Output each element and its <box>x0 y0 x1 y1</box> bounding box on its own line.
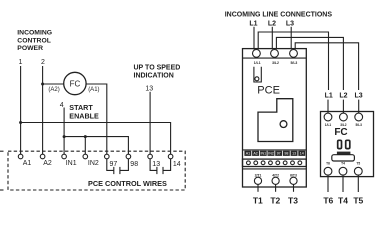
svg-text:T5: T5 <box>356 162 360 166</box>
rocker <box>332 155 355 161</box>
svg-text:INCOMING: INCOMING <box>17 29 52 36</box>
PCE terminal 1/L1 <box>253 50 261 58</box>
coil window bars <box>338 140 350 148</box>
contact 13-14 (N.O. contact) <box>150 159 171 174</box>
svg-text:98: 98 <box>130 161 138 168</box>
svg-text:T4: T4 <box>341 162 345 166</box>
svg-text:5/L3: 5/L3 <box>356 123 363 127</box>
svg-text:FC: FC <box>70 79 81 88</box>
svg-text:POWER: POWER <box>17 45 43 52</box>
wire from FC coil (A1) right then down to terminal 97 <box>86 84 107 154</box>
svg-text:1: 1 <box>19 59 23 66</box>
FC terminal T6 <box>324 167 332 175</box>
wire stub T5 <box>357 175 359 192</box>
terminal IN1 <box>62 154 67 159</box>
stray dash left edge bottom <box>0 189 4 191</box>
svg-text:IN1: IN1 <box>66 160 77 167</box>
wire line2 from node 2 down to terminal A2 <box>42 66 44 154</box>
svg-text:(A1): (A1) <box>88 87 99 93</box>
wire jumper 1/L1 to FC L1 <box>258 32 328 90</box>
svg-text:3/L2: 3/L2 <box>272 61 279 65</box>
PCE terminal 6/T3 <box>290 177 297 184</box>
terminal 97 <box>105 154 110 159</box>
FC terminal 1/L1 <box>324 113 332 121</box>
svg-text:T2: T2 <box>270 195 280 205</box>
svg-text:L2: L2 <box>268 20 276 27</box>
FC terminal 3/L2 <box>340 113 348 121</box>
FC contactor box <box>321 112 374 177</box>
terminal strip dark blocks A1 A2 IN1 IN2 97 98 13 14 <box>244 151 305 156</box>
svg-text:INCOMING LINE CONNECTIONS: INCOMING LINE CONNECTIONS <box>225 11 333 18</box>
wire from node 13 down to terminal 13 <box>149 92 151 154</box>
coil FC (left diagram) <box>64 72 86 94</box>
PCE terminal 4/T2 <box>272 177 279 184</box>
terminal strip top line <box>243 149 307 151</box>
wire jumper 3/L2 to FC L2 <box>276 37 343 90</box>
terminal A2 <box>40 154 45 159</box>
svg-text:T6: T6 <box>326 162 330 166</box>
screw row band <box>243 159 307 166</box>
contact 97-98 (N.O. contact) <box>107 159 129 174</box>
junction on line2 at y=84 <box>41 83 44 86</box>
wire stub T1 <box>257 185 259 192</box>
terminal A1 <box>18 154 23 159</box>
svg-text:IN1: IN1 <box>261 152 267 156</box>
svg-text:98: 98 <box>284 152 288 156</box>
wire FC L1 stub <box>327 100 329 114</box>
FC terminal T5 <box>354 167 362 175</box>
wire L1 into PCE terminal 1/L1 <box>253 27 255 50</box>
PCE terminal 3/L2 <box>271 50 279 58</box>
terminal IN2 <box>83 154 88 159</box>
rocker lip <box>337 152 351 155</box>
line under screw band <box>243 168 307 170</box>
FC terminal T4 <box>339 167 347 175</box>
svg-text:T5: T5 <box>353 196 363 206</box>
svg-text:FC: FC <box>334 127 347 138</box>
wire stub T6 <box>327 175 329 192</box>
svg-text:INDICATION: INDICATION <box>134 72 174 79</box>
svg-text:13: 13 <box>152 161 160 168</box>
wire FC L3 stub <box>358 100 360 114</box>
svg-text:CONTROL: CONTROL <box>17 37 51 44</box>
svg-text:13: 13 <box>145 86 153 93</box>
svg-text:IN2: IN2 <box>88 160 99 167</box>
svg-text:4: 4 <box>60 102 64 109</box>
junction above IN2 <box>84 135 87 138</box>
svg-text:(A2): (A2) <box>48 87 59 93</box>
divider under PCE top terminals <box>243 57 307 59</box>
svg-text:1/L1: 1/L1 <box>325 123 332 127</box>
wire line1 from node 1 down to terminal A1 <box>20 66 22 154</box>
terminal 13 <box>148 154 153 159</box>
svg-text:PCE CONTROL WIRES: PCE CONTROL WIRES <box>88 179 167 188</box>
svg-text:97: 97 <box>277 152 281 156</box>
svg-text:A2: A2 <box>253 152 257 156</box>
stray dash left edge top <box>0 150 4 152</box>
terminal 98 <box>126 154 131 159</box>
screw terminals row <box>247 161 302 165</box>
wire stub T4 <box>342 175 344 192</box>
svg-text:T6: T6 <box>323 196 333 206</box>
DIN clip symbol <box>254 67 261 82</box>
junction on line1 at y=122.5 <box>19 121 22 124</box>
svg-text:14: 14 <box>173 161 181 168</box>
svg-text:A2: A2 <box>43 160 52 167</box>
svg-text:L1: L1 <box>325 93 333 100</box>
svg-text:PCE: PCE <box>257 85 280 97</box>
wire FC L2 stub <box>342 100 344 114</box>
wire from line2 junction to FC coil (A2) <box>43 83 64 85</box>
svg-text:IN2: IN2 <box>268 152 274 156</box>
dashed boundary PCE control wires <box>8 151 185 190</box>
label START ENABLE <box>69 103 99 120</box>
label INCOMING CONTROL POWER <box>17 29 52 52</box>
stepped outline inside PCE <box>258 99 293 142</box>
svg-text:2: 2 <box>41 59 45 66</box>
svg-text:1/L1: 1/L1 <box>254 61 261 65</box>
svg-text:A1: A1 <box>23 160 32 167</box>
svg-text:T3: T3 <box>288 195 298 205</box>
wire horizontal IN1 to IN2 to terminal 98 <box>64 137 128 155</box>
svg-text:13: 13 <box>292 152 296 156</box>
wire jumper 5/L3 to FC L3 <box>295 43 358 90</box>
PCE starter box <box>243 49 307 187</box>
svg-text:L2: L2 <box>339 93 347 100</box>
wire L2 into PCE terminal 3/L2 <box>271 27 273 50</box>
svg-text:5/L3: 5/L3 <box>291 61 298 65</box>
wire stub T3 <box>293 185 295 192</box>
wire stub T2 <box>275 185 277 192</box>
svg-text:T1: T1 <box>253 195 263 205</box>
svg-text:14: 14 <box>300 152 304 156</box>
PCE terminal 2/T1 <box>254 177 261 184</box>
junction on IN1 wire at y=136.6 <box>63 135 66 138</box>
svg-text:T4: T4 <box>338 196 348 206</box>
terminal 14 <box>168 154 173 159</box>
FC terminal 5/L3 <box>355 113 363 121</box>
wire L3 into PCE terminal 5/L3 <box>290 27 292 50</box>
svg-text:L1: L1 <box>249 20 257 27</box>
label UP TO SPEED INDICATION <box>134 64 181 79</box>
svg-text:L3: L3 <box>355 93 363 100</box>
svg-text:L3: L3 <box>286 20 294 27</box>
svg-text:ENABLE: ENABLE <box>69 111 99 120</box>
svg-text:UP TO SPEED: UP TO SPEED <box>134 64 181 71</box>
svg-text:A1: A1 <box>246 152 250 156</box>
wire horizontal from line1 junction to terminal 14 <box>21 123 171 155</box>
wire start-enable from node 4 down to terminal IN1 <box>63 108 65 155</box>
wire drop to IN2 <box>84 137 86 155</box>
PCE terminal 5/L3 <box>290 50 298 58</box>
